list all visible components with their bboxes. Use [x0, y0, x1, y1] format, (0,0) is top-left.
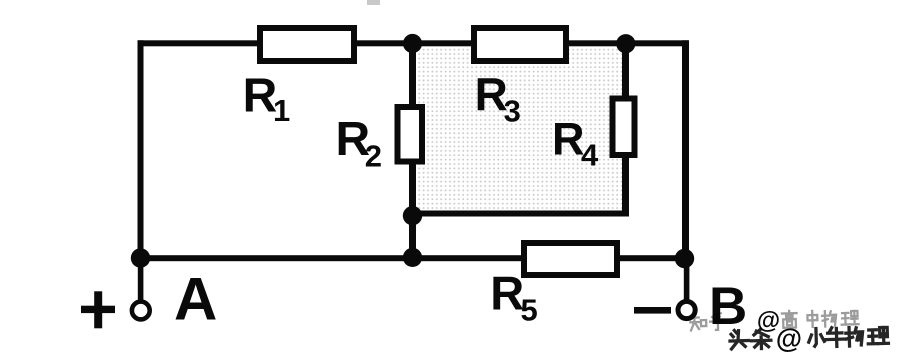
label R5 — [490, 267, 537, 328]
plus sign (+) at terminal A — [81, 291, 115, 328]
svg-text:5: 5 — [521, 292, 538, 327]
svg-text:2: 2 — [365, 138, 382, 173]
resistor R4 (body) — [613, 99, 635, 156]
terminal B (open circle) — [678, 301, 695, 318]
glyph zhong — [807, 311, 817, 327]
svg-text:A: A — [174, 266, 217, 333]
label R1 — [243, 70, 291, 129]
terminal A (open circle) — [132, 302, 150, 320]
wire: stem to terminal B — [684, 259, 690, 300]
svg-text:@: @ — [775, 323, 802, 354]
node: junction dot bottom of R2 at inner wire — [403, 206, 422, 225]
wire: right vertical rail — [682, 40, 689, 261]
resistor R3 (body) — [474, 28, 566, 61]
glyph wu — [822, 311, 836, 327]
glyph hu — [710, 313, 725, 330]
shaded inner mesh region (dotted) — [416, 46, 623, 211]
watermark line 1: zhihu @gaozhongwuli (gray) — [690, 304, 859, 336]
node: junction dot bottom-right corner (terminal B) — [675, 249, 694, 268]
node: junction dot top of R2 — [403, 34, 422, 53]
node: junction dot top of R4 — [616, 34, 635, 53]
label R2 — [336, 113, 382, 173]
label R4 — [552, 114, 599, 173]
resistor R5 (body) — [524, 243, 617, 275]
wire: bottom horizontal rail — [138, 255, 687, 261]
glyph wu2 — [846, 327, 863, 346]
svg-text:3: 3 — [504, 94, 521, 129]
wire: left vertical rail — [138, 40, 144, 260]
wire: stem to terminal A — [138, 258, 144, 301]
wire: R4 branch vertical — [622, 43, 629, 215]
wire: inner bottom horizontal (R2 bottom to R4 bottom) — [409, 211, 629, 217]
glyph gao — [782, 311, 797, 328]
wire: R2 branch vertical — [409, 43, 416, 258]
glyph tiao — [751, 329, 771, 349]
minus sign (-) at terminal B — [634, 307, 671, 314]
node: junction dot bottom-left corner (terminal A) — [131, 248, 150, 267]
resistor R1 (body) — [260, 28, 354, 61]
glyph zhi — [690, 314, 706, 330]
resistor R2 (body) — [398, 107, 423, 162]
glyph tou — [730, 330, 749, 349]
glyph xiao — [808, 328, 824, 346]
svg-text:4: 4 — [581, 138, 599, 173]
node: junction dot R2 branch at bottom rail — [403, 248, 422, 267]
svg-text:R: R — [552, 114, 585, 165]
glyph li2 — [868, 327, 889, 344]
wire: top horizontal A-row from left rail to right rail — [138, 40, 689, 46]
svg-text:B: B — [709, 277, 747, 336]
watermark line 2: toutiao @xiaoniuwuli (dark) — [730, 321, 889, 355]
smudge artifact top edge — [367, 0, 380, 5]
label R3 — [475, 68, 521, 129]
svg-text:R: R — [490, 267, 524, 320]
svg-text:1: 1 — [273, 93, 290, 128]
glyph niu — [826, 327, 846, 346]
glyph li — [841, 311, 858, 325]
